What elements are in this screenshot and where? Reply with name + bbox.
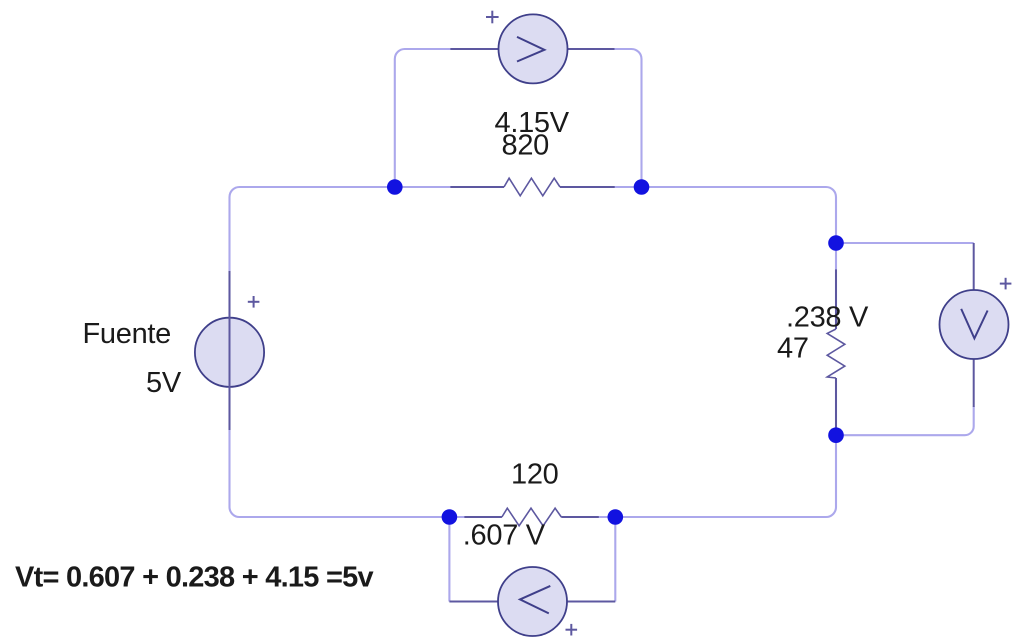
bottom meter plus [566, 624, 578, 636]
svg-text:Vt= 0.607 + 0.238 + 4.15 =5v: Vt= 0.607 + 0.238 + 4.15 =5v [15, 561, 374, 593]
svg-text:47: 47 [777, 333, 809, 365]
node N4 [828, 427, 844, 443]
resistor R3 120 leads [464, 516, 598, 518]
bottom meter leads [449, 601, 615, 603]
resistor R1 820 leads [450, 186, 614, 188]
wire main loop (light) [230, 187, 837, 517]
wire right voltmeter loop [836, 242, 974, 244]
top ammeter body [499, 14, 568, 83]
right voltmeter glyph V [961, 309, 987, 339]
node N1 [387, 179, 403, 195]
voltage source plus [248, 296, 260, 308]
resistor R2 47 leads [835, 269, 837, 431]
node N2 [634, 179, 650, 195]
bottom meter body [498, 567, 567, 636]
svg-text:120: 120 [511, 459, 559, 491]
resistor R2 47 zigzag [827, 329, 845, 378]
resistor R3 120 zigzag [502, 508, 561, 526]
right voltmeter leads [973, 243, 975, 407]
voltage source lead wire through body [229, 271, 231, 430]
svg-text:5V: 5V [146, 367, 182, 399]
node N6 [608, 509, 624, 525]
top ammeter glyph > [517, 37, 544, 62]
right voltmeter body [940, 290, 1009, 359]
wire top meter loop [395, 49, 642, 187]
top ammeter plus [486, 11, 499, 24]
node N5 [442, 509, 458, 525]
svg-text:820: 820 [502, 130, 550, 162]
svg-text:.607 V: .607 V [463, 520, 546, 552]
bottom meter glyph < [520, 586, 550, 614]
svg-text:.238 V: .238 V [786, 302, 869, 334]
right voltmeter plus [1000, 278, 1012, 290]
voltage source Fuente body [195, 318, 264, 387]
wire bottom meter loop [448, 517, 450, 602]
top ammeter leads [450, 48, 614, 50]
node N3 [828, 235, 844, 251]
resistor R1 820 zigzag [504, 178, 560, 196]
svg-text:Fuente: Fuente [83, 318, 172, 350]
